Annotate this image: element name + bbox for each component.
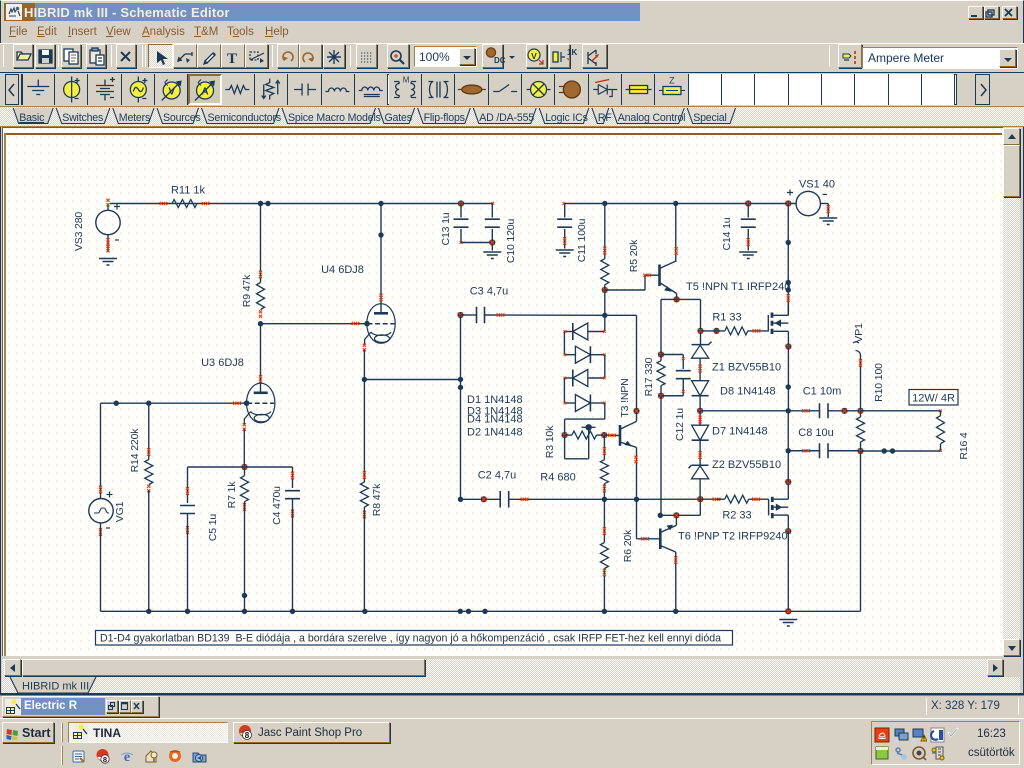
wire C8 to R10 bottom node bbox=[828, 450, 861, 452]
svg-text:Flip-flops: Flip-flops bbox=[424, 112, 465, 124]
svg-text:C2 4,7u: C2 4,7u bbox=[478, 470, 517, 482]
component toolbar bbox=[0, 72, 1024, 107]
resistor R14 220k bbox=[145, 460, 153, 485]
node junction top rail to R9/U3 bbox=[258, 201, 263, 206]
node joint dots on top rail bbox=[258, 201, 263, 206]
wire Z2 bottom to T6 emitter node bbox=[699, 499, 701, 515]
resistor R9 47k bbox=[257, 283, 265, 310]
wire U3 grid to left net bbox=[101, 402, 247, 404]
node R4 bottom junction bbox=[602, 497, 607, 502]
wire R14 to bottom rail bbox=[148, 490, 150, 611]
svg-text:Z: Z bbox=[669, 76, 675, 86]
resistor R16 4 bbox=[940, 411, 942, 416]
node R1 tap junction bbox=[697, 328, 703, 334]
resistor R11 1k bbox=[172, 200, 197, 208]
wire cathode node to C4 bbox=[245, 466, 293, 468]
text box 12W/ 4R bbox=[909, 390, 958, 406]
node T6 emitter junction bbox=[658, 513, 663, 518]
svg-text:Switches: Switches bbox=[62, 112, 103, 124]
node R3 right junction bbox=[601, 432, 607, 438]
diode D8 1N4148 bbox=[692, 381, 709, 396]
svg-text:D8 1N4148: D8 1N4148 bbox=[720, 386, 776, 398]
svg-text:C11 100u: C11 100u bbox=[576, 218, 588, 262]
zener diode Z2 BZV55B10 bbox=[699, 451, 702, 459]
sheet tab row bbox=[2, 677, 1020, 693]
svg-text:VS3 280: VS3 280 bbox=[73, 212, 85, 252]
node top supply rail left segment bbox=[110, 203, 493, 205]
wire junction to U4 grid bbox=[261, 323, 367, 325]
svg-text:e: e bbox=[124, 750, 130, 764]
resistor R4 680 bbox=[603, 435, 605, 460]
taskbar bbox=[0, 718, 1024, 768]
node R10 bottom junction bbox=[857, 448, 863, 454]
wire R14 branch bbox=[148, 403, 150, 459]
transistor T3 NPN bbox=[619, 425, 622, 446]
voltage source VS3 280 bbox=[96, 210, 120, 234]
wire cathode node to C5 bbox=[188, 466, 245, 468]
svg-text:R7 1k: R7 1k bbox=[226, 481, 238, 509]
capacitor C2 4,7u bbox=[461, 498, 501, 500]
node R17 top junction bbox=[658, 351, 664, 357]
svg-text:C12 1u: C12 1u bbox=[674, 408, 686, 441]
svg-text:R17 330: R17 330 bbox=[643, 357, 655, 396]
ground for C11 bbox=[556, 250, 574, 257]
resistor R5 20k bbox=[601, 259, 609, 285]
node U3 cathode junction bbox=[241, 464, 247, 470]
svg-text:RF: RF bbox=[598, 112, 612, 124]
capacitor C10 120u bbox=[491, 202, 494, 205]
minimized window Electric R bbox=[2, 696, 159, 717]
wire C3 node down to C2 node bbox=[460, 315, 462, 499]
ground main bbox=[779, 620, 797, 627]
svg-text:C4 470u: C4 470u bbox=[271, 486, 283, 525]
toolbar icons bbox=[0, 44, 1024, 70]
wire D2 to R3 potentiometer bbox=[604, 403, 606, 419]
wire R2 node to T2 gate bbox=[756, 498, 768, 500]
svg-text:R16 4: R16 4 bbox=[958, 432, 970, 460]
svg-text:HIBRID mk III: HIBRID mk III bbox=[22, 681, 89, 693]
wire output node to C1 bbox=[788, 410, 819, 412]
svg-text:C13 1u: C13 1u bbox=[440, 212, 452, 245]
capacitor C14 1u bbox=[745, 200, 751, 206]
horizontal scrollbar bbox=[2, 659, 1003, 677]
wire T5 emitter to Z1 branch bbox=[677, 298, 701, 300]
svg-text:Basic: Basic bbox=[19, 112, 45, 124]
svg-text:R9 47k: R9 47k bbox=[241, 274, 253, 307]
wire R5 node to T5 base bbox=[605, 289, 645, 291]
svg-text:Semiconductors: Semiconductors bbox=[208, 112, 281, 124]
svg-text:Spice Macro Models: Spice Macro Models bbox=[288, 112, 381, 124]
schematic canvas bbox=[2, 127, 1003, 656]
wire R3 to T3 base bbox=[604, 434, 619, 436]
wire C5 to bottom rail bbox=[187, 514, 189, 612]
resistor R7 1k bbox=[244, 467, 246, 476]
wire node to C3 branch bbox=[364, 379, 460, 381]
svg-text:R10 100: R10 100 bbox=[873, 363, 885, 402]
svg-text:R6 20k: R6 20k bbox=[622, 529, 634, 562]
wire T1 drain to rail bbox=[785, 200, 791, 206]
schematic page boundary bbox=[4, 133, 1002, 135]
resistor R1 33 bbox=[713, 328, 719, 334]
diode D1 1N4148 bbox=[573, 323, 588, 340]
capacitor C8 10u bbox=[820, 443, 829, 458]
wire C13 bottom to C10 bottom bbox=[461, 242, 492, 244]
wire D3 right down to D4 bbox=[604, 355, 606, 378]
svg-text:C10 120u: C10 120u bbox=[505, 219, 517, 264]
svg-text:U4 6DJ8: U4 6DJ8 bbox=[321, 264, 364, 276]
node bottom ground rail bbox=[101, 610, 861, 612]
node U4 cathode junction bbox=[362, 377, 367, 382]
capacitor C4 470u bbox=[285, 491, 300, 499]
svg-text:R2 33: R2 33 bbox=[722, 510, 751, 522]
capacitor C11 100u bbox=[563, 202, 566, 205]
svg-text:12W/ 4R: 12W/ 4R bbox=[912, 393, 955, 405]
svg-text:R3 10k: R3 10k bbox=[544, 425, 556, 458]
node Z2 bottom junction bbox=[697, 496, 703, 502]
capacitor C5 1u bbox=[180, 506, 195, 514]
wire junction down to diode chain bbox=[604, 290, 606, 332]
system tray bbox=[871, 721, 1020, 765]
node T5 emitter junction bbox=[676, 294, 678, 300]
svg-text:R5 20k: R5 20k bbox=[628, 239, 640, 272]
svg-text:R14 220k: R14 220k bbox=[129, 428, 141, 473]
transistor T6 PNP bbox=[659, 529, 662, 550]
svg-text:C8 10u: C8 10u bbox=[798, 427, 833, 439]
svg-text:Logic ICs: Logic ICs bbox=[545, 112, 588, 124]
wire C12 bottom branch bbox=[682, 379, 684, 396]
svg-text:R11 1k: R11 1k bbox=[171, 185, 206, 197]
svg-text:!: ! bbox=[923, 737, 925, 743]
wire signal node to R2 bbox=[604, 498, 716, 500]
wire R10 node down to bottom rail bbox=[860, 451, 862, 611]
svg-text:U3 6DJ8: U3 6DJ8 bbox=[201, 357, 244, 369]
wire D4 left down to D2 bbox=[563, 378, 565, 403]
svg-text:Gates: Gates bbox=[385, 112, 412, 124]
diode D4 1N4148 bbox=[573, 370, 588, 387]
title bar bbox=[4, 3, 35, 21]
wire T2 source to bottom rail bbox=[785, 528, 791, 534]
wire junction down to U3 plate bbox=[260, 324, 262, 392]
svg-text:R4 680: R4 680 bbox=[540, 472, 575, 484]
wire R16 bottom to R10 node bbox=[861, 450, 941, 452]
resistor R8 47k bbox=[363, 380, 365, 483]
svg-text:T6 !PNP T2 IRFP9240: T6 !PNP T2 IRFP9240 bbox=[678, 531, 788, 543]
svg-text:C14 1u: C14 1u bbox=[721, 217, 733, 250]
ground for VS1 bbox=[819, 218, 837, 225]
svg-text:M: M bbox=[403, 76, 410, 85]
zoom combo bbox=[414, 46, 477, 67]
wire U4 cathode down bbox=[363, 349, 365, 380]
svg-text:T5 !NPN T1 IRFP240: T5 !NPN T1 IRFP240 bbox=[686, 281, 790, 293]
wire R5 branch from rail bbox=[602, 201, 607, 206]
svg-text:D1-D4 gyakorlatban BD139 B-E: D1-D4 gyakorlatban BD139 B-E diódája , a… bbox=[100, 633, 721, 645]
node C2 left junction bbox=[458, 497, 463, 502]
diode D2 1N4148 bbox=[575, 395, 590, 412]
vacuum tube U3 6DJ8 bbox=[247, 383, 275, 423]
schematic page boundary left bbox=[4, 133, 6, 656]
node R5 bottom junction bbox=[604, 285, 606, 290]
vacuum tube U4 6DJ8 bbox=[367, 304, 395, 344]
resistor R6 20k bbox=[603, 499, 605, 542]
transistor T1 IRFP240 n-mosfet bbox=[767, 315, 769, 332]
wire junction to T3 collector branch bbox=[605, 314, 637, 316]
capacitor C13 1u bbox=[458, 200, 464, 206]
diode D7 1N4148 bbox=[699, 411, 701, 425]
toolbar bbox=[0, 43, 1024, 72]
node C3 input junction bbox=[457, 312, 463, 318]
Jasc task button bbox=[233, 722, 390, 743]
wire output top to R16 bbox=[861, 410, 941, 412]
svg-text:T3 !NPN: T3 !NPN bbox=[619, 378, 631, 417]
component tabs bbox=[0, 107, 1024, 127]
wire C12 top branch bbox=[661, 354, 683, 356]
node top supply rail right segment bbox=[564, 203, 796, 205]
svg-text:8: 8 bbox=[103, 755, 107, 764]
wire D8 junction to output node bbox=[700, 410, 788, 412]
svg-text:D1 1N4148: D1 1N4148 bbox=[467, 394, 523, 406]
svg-text:Meters: Meters bbox=[119, 112, 150, 124]
wire C1 to R10 top bbox=[828, 410, 861, 412]
status bar bbox=[0, 696, 1024, 718]
capacitor C3 4,7u bbox=[461, 314, 477, 316]
svg-text:C3 4,7u: C3 4,7u bbox=[470, 286, 509, 298]
svg-text:Special: Special bbox=[693, 112, 727, 124]
menu bar bbox=[0, 26, 1024, 42]
wire T5 collector to rail bbox=[673, 201, 678, 206]
voltage generator VG1 bbox=[89, 499, 113, 523]
node R5/C3/diode junction bbox=[602, 313, 607, 318]
application icon bbox=[6, 4, 22, 20]
resistor R17 330 bbox=[660, 355, 662, 361]
wire R7 to bottom rail bbox=[244, 502, 246, 612]
ground for C10 bbox=[483, 252, 501, 259]
wire R8 to bottom rail bbox=[363, 507, 365, 611]
svg-text:VS1 40: VS1 40 bbox=[799, 179, 835, 191]
svg-text:R1 33: R1 33 bbox=[712, 312, 741, 324]
node T3 collector junction bbox=[633, 408, 639, 414]
svg-text:Sources: Sources bbox=[163, 112, 201, 124]
zener diode Z1 BZV55B10 bbox=[692, 342, 712, 345]
diode D3 1N4148 bbox=[575, 346, 590, 363]
wire T2 drain up bbox=[785, 479, 791, 485]
node R10 top junction bbox=[857, 408, 863, 414]
tab labels bbox=[0, 107, 1024, 127]
svg-text:D7 1N4148: D7 1N4148 bbox=[712, 426, 768, 438]
svg-text:C1 10m: C1 10m bbox=[803, 386, 842, 398]
svg-text:VG1: VG1 bbox=[114, 501, 126, 522]
TINA task button bbox=[68, 722, 228, 743]
wire U3 cathode down to node bbox=[243, 429, 245, 468]
node D8 cathode junction bbox=[697, 408, 703, 414]
wire R9 branch down bbox=[260, 204, 262, 283]
wire T6 base from signal node bbox=[636, 499, 638, 539]
svg-text:Z1 BZV55B10: Z1 BZV55B10 bbox=[712, 362, 781, 374]
svg-text:Z2 BZV55B10: Z2 BZV55B10 bbox=[712, 459, 781, 471]
svg-text:AD /DA-555: AD /DA-555 bbox=[479, 112, 534, 124]
ground for C14 bbox=[739, 252, 757, 259]
potentiometer R3 10k bbox=[562, 432, 568, 438]
node R9 bottom junction bbox=[258, 321, 263, 326]
wire D1 left down to D3 bbox=[563, 332, 565, 355]
wire VG1 down to bottom rail bbox=[100, 523, 102, 611]
wire R17 bottom down to T6 emitter node bbox=[660, 396, 662, 516]
wire output node to C8 bbox=[788, 450, 819, 452]
wire T5 emitter to R17 top bbox=[661, 298, 677, 300]
svg-text:VP1: VP1 bbox=[853, 323, 865, 343]
wire top rail to U4 plate bbox=[378, 201, 383, 206]
voltage pin VP1 bbox=[856, 350, 861, 355]
svg-text:R8 47k: R8 47k bbox=[371, 483, 383, 516]
vertical scrollbar bbox=[1003, 128, 1020, 656]
voltage source VS1 40 bbox=[796, 191, 820, 215]
ground for VS3 bbox=[99, 259, 117, 266]
svg-text:D2 1N4148: D2 1N4148 bbox=[467, 427, 523, 439]
component combo Ampere Meter bbox=[862, 47, 1018, 69]
node R17 bottom junction bbox=[658, 393, 664, 399]
wire VG1 to grid net bbox=[100, 403, 102, 498]
resistor R10 100 bbox=[860, 411, 862, 417]
svg-text:8: 8 bbox=[245, 731, 250, 740]
start button bbox=[2, 722, 54, 743]
transistor T5 NPN bbox=[658, 265, 661, 287]
svg-text:C5 1u: C5 1u bbox=[207, 514, 219, 542]
wire T1 source down bbox=[785, 343, 791, 349]
svg-text:D4 1N4148: D4 1N4148 bbox=[467, 414, 523, 426]
svg-text:Analog Control: Analog Control bbox=[618, 112, 686, 124]
capacitor C1 10m bbox=[820, 403, 829, 418]
transistor T2 IRFP9240 p-mosfet bbox=[768, 499, 770, 515]
text note box D1-D4 bbox=[96, 631, 733, 646]
wire C4 to bottom rail bbox=[292, 499, 294, 612]
resistor R2 33 bbox=[713, 498, 721, 501]
component icons bbox=[0, 0, 1024, 110]
capacitor C12 1u bbox=[676, 371, 691, 379]
